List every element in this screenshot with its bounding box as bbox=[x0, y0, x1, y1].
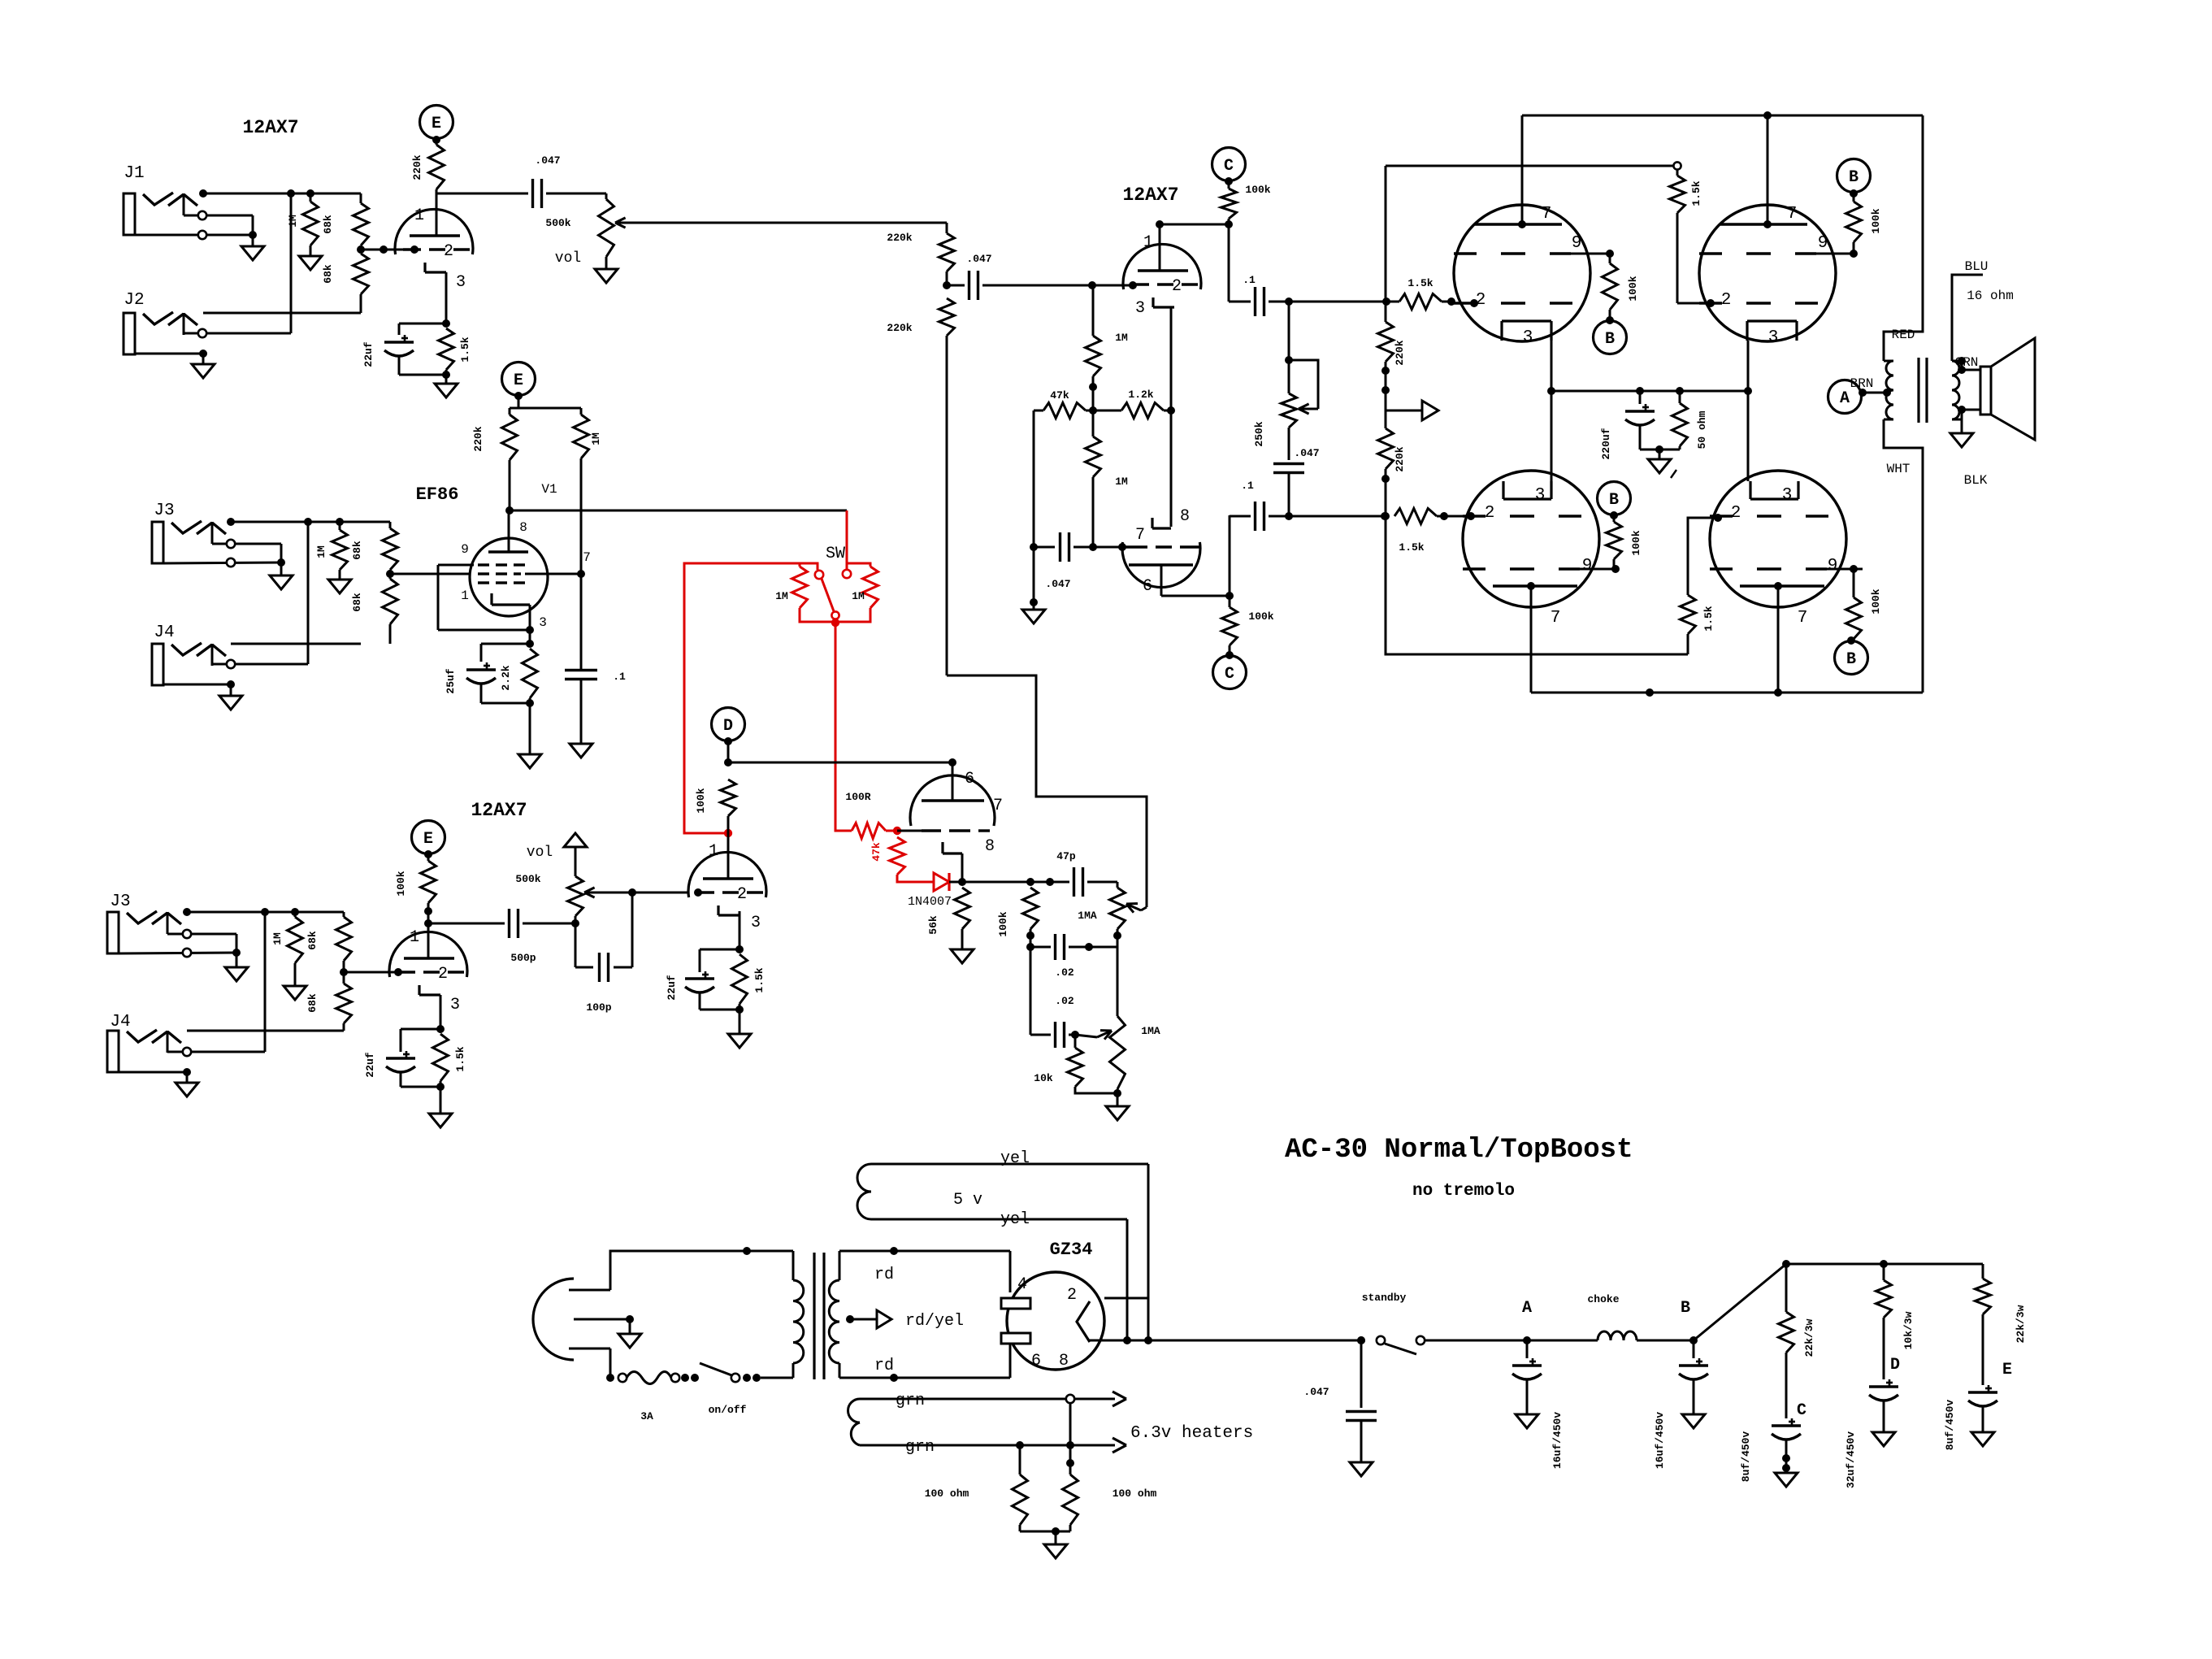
resistor 100k (tube1 screen) bbox=[1603, 250, 1618, 324]
terminal E (ch3) bbox=[412, 821, 445, 859]
terminal B (tube1) bbox=[1594, 321, 1627, 354]
ground (1M ch1) bbox=[299, 256, 322, 270]
svg-text:22uf: 22uf bbox=[364, 1052, 376, 1077]
pin 2 tube4 bbox=[1731, 504, 1741, 523]
svg-text:A: A bbox=[1522, 1299, 1532, 1318]
label grn bottom bbox=[905, 1438, 935, 1457]
label 220k ch1 bbox=[411, 154, 423, 180]
pin 9 tube4 bbox=[1828, 557, 1838, 575]
svg-text:68k: 68k bbox=[306, 931, 319, 950]
label 220uf bbox=[1600, 428, 1612, 459]
label 47k red bbox=[870, 842, 883, 862]
pin 8 V2b bbox=[1180, 507, 1190, 526]
svg-text:BLK: BLK bbox=[1964, 473, 1988, 488]
terminal B (tube4) bbox=[1835, 641, 1868, 675]
resistor 100k (tube3 screen) bbox=[1607, 515, 1622, 573]
ground (47k bypass) bbox=[1022, 610, 1045, 623]
label 1.5k tube3 bbox=[1399, 541, 1424, 554]
svg-text:J3: J3 bbox=[154, 502, 174, 520]
svg-text:16 ohm: 16 ohm bbox=[1967, 289, 2014, 303]
label .047 PI bbox=[966, 253, 991, 265]
subtitle no tremolo bbox=[1412, 1182, 1515, 1201]
label 100k t3 bbox=[1630, 530, 1642, 555]
pin 3 tube4 bbox=[1782, 486, 1793, 505]
label .047 B+ bbox=[1303, 1386, 1329, 1398]
pin 3 V3b bbox=[751, 914, 761, 932]
ground (16uf B) bbox=[1682, 1414, 1705, 1428]
pin 1 V2a bbox=[1143, 233, 1153, 252]
label .02 upper bbox=[1055, 966, 1074, 979]
resistor 1M (ch3) bbox=[288, 912, 303, 986]
label yel top bbox=[1000, 1149, 1030, 1168]
svg-text:16uf/450v: 16uf/450v bbox=[1551, 1412, 1564, 1469]
svg-text:BLU: BLU bbox=[1965, 259, 1989, 274]
wire plate node to cap bbox=[436, 193, 528, 195]
ground (J4b) bbox=[176, 1083, 198, 1097]
pin 2 GZ34 bbox=[1067, 1286, 1077, 1305]
label GZ34 bbox=[1050, 1240, 1093, 1260]
svg-text:1M: 1M bbox=[1115, 476, 1128, 488]
resistor 10k bbox=[1068, 1035, 1118, 1093]
svg-text:47p: 47p bbox=[1056, 850, 1076, 862]
svg-text:1M: 1M bbox=[287, 215, 299, 228]
svg-text:1M: 1M bbox=[315, 545, 327, 558]
pin 2 tube1 bbox=[1476, 291, 1486, 310]
label 100p bbox=[586, 1001, 611, 1014]
resistor 220k (bias upper) bbox=[1378, 302, 1394, 410]
resistor 68k (ch2 b) bbox=[383, 570, 398, 644]
label 22k/3w E bbox=[2015, 1305, 2027, 1343]
terminal E (ch1) bbox=[420, 106, 453, 145]
label 220k bias lower bbox=[1394, 446, 1406, 471]
svg-text:100k: 100k bbox=[1248, 610, 1273, 623]
svg-text:C: C bbox=[1225, 665, 1234, 684]
wire bass gnd bbox=[1117, 1093, 1119, 1106]
AC plug prong gnd bbox=[574, 1315, 634, 1334]
svg-text:9: 9 bbox=[1818, 234, 1828, 253]
wire V3c cathode to diode node bbox=[958, 853, 966, 886]
resistor 68k (ch1 b) bbox=[353, 245, 369, 313]
svg-text:100 ohm: 100 ohm bbox=[1113, 1487, 1157, 1500]
svg-text:10k/3w: 10k/3w bbox=[1902, 1311, 1915, 1349]
wire D node right bbox=[728, 758, 956, 767]
tube EL84 #1 bbox=[1454, 205, 1610, 341]
tube V1a 12AX7 bbox=[395, 209, 473, 272]
wire BLU 16ohm tap bbox=[1952, 275, 1983, 365]
speaker bbox=[1980, 338, 2035, 440]
wire J1 tip bbox=[199, 189, 361, 198]
svg-text:8: 8 bbox=[519, 520, 527, 535]
fuse 3A bbox=[618, 1372, 699, 1384]
svg-text:16uf/450v: 16uf/450v bbox=[1654, 1412, 1666, 1469]
label 2.2k bbox=[500, 665, 512, 690]
svg-text:1M: 1M bbox=[775, 590, 788, 602]
ground (1M ch3) bbox=[284, 986, 306, 1000]
svg-text:3A: 3A bbox=[640, 1410, 653, 1422]
ground (J1 sleeve) bbox=[241, 246, 264, 260]
label WHT bbox=[1887, 462, 1911, 476]
pin 1 label EF86 bbox=[461, 588, 469, 603]
label .047 cut bbox=[1294, 447, 1319, 459]
pin 8 label EF86 bbox=[519, 520, 527, 535]
wire V2b plate bbox=[1161, 565, 1234, 600]
ground (vol ch1) bbox=[595, 269, 618, 283]
label 1.5k V3b bbox=[753, 967, 766, 992]
svg-text:1.5k: 1.5k bbox=[1399, 541, 1424, 554]
pin 2 tube2 bbox=[1721, 291, 1732, 310]
switch SW lever bbox=[815, 571, 839, 627]
label 68k ch3a bbox=[306, 931, 319, 950]
pin 8 V3c bbox=[985, 837, 995, 856]
svg-text:68k: 68k bbox=[322, 215, 334, 234]
terminal E (ch2) bbox=[502, 363, 536, 401]
svg-text:rd: rd bbox=[874, 1266, 894, 1284]
svg-text:B: B bbox=[1609, 491, 1619, 510]
wire BLK tap bbox=[1958, 406, 1980, 433]
resistor 1M (ch1 grid leak) bbox=[303, 193, 319, 256]
svg-text:.047: .047 bbox=[535, 154, 560, 167]
wire to ground ch1 cathode bbox=[445, 375, 448, 384]
wire yel left bbox=[1123, 1219, 1131, 1344]
svg-text:7: 7 bbox=[993, 797, 1003, 815]
svg-text:2.2k: 2.2k bbox=[500, 665, 512, 690]
wire red switch common down bbox=[835, 623, 852, 831]
node ch3 grid junction bbox=[340, 968, 402, 976]
svg-text:32uf/450v: 32uf/450v bbox=[1845, 1431, 1857, 1488]
resistor 1.5k (tube3 grid) bbox=[1394, 509, 1475, 524]
jack J2 label bbox=[124, 291, 144, 310]
svg-text:6.3v heaters: 6.3v heaters bbox=[1130, 1424, 1253, 1443]
svg-text:8: 8 bbox=[1180, 507, 1190, 526]
terminal C (bottom) bbox=[1213, 656, 1247, 689]
svg-text:1.2k: 1.2k bbox=[1128, 389, 1153, 401]
svg-text:.02: .02 bbox=[1055, 995, 1074, 1007]
svg-text:.1: .1 bbox=[613, 671, 626, 683]
label 16 ohm bbox=[1967, 289, 2014, 303]
pot 1MA treble bbox=[1110, 882, 1147, 940]
PT 6.3v winding bbox=[848, 1392, 1127, 1453]
node B bbox=[1689, 1336, 1698, 1344]
pin 7 V2b bbox=[1135, 526, 1145, 545]
wire J4 ring to J3 tip bbox=[307, 522, 310, 664]
label 100k V3a bbox=[395, 871, 407, 896]
pin 8 GZ34 bbox=[1059, 1352, 1069, 1370]
label 56k bbox=[927, 915, 939, 935]
svg-text:68k: 68k bbox=[322, 264, 334, 284]
capacitor .047 (47k bypass) bbox=[1030, 410, 1069, 610]
svg-text:50 ohm: 50 ohm bbox=[1696, 410, 1708, 449]
pin 9 tube2 bbox=[1818, 234, 1828, 253]
switch standby bbox=[1377, 1336, 1425, 1354]
resistor 100k (V2a plate) bbox=[1221, 180, 1237, 228]
pin 3 tube2 bbox=[1768, 328, 1779, 347]
label D node bbox=[1890, 1356, 1900, 1375]
svg-text:9: 9 bbox=[1572, 234, 1582, 253]
capacitor .047 (PI input) bbox=[947, 271, 1137, 300]
label 500k ch3 bbox=[515, 873, 540, 885]
svg-text:WHT: WHT bbox=[1887, 462, 1911, 476]
svg-text:5 v: 5 v bbox=[953, 1191, 982, 1210]
svg-text:10k: 10k bbox=[1034, 1072, 1053, 1084]
svg-text:500k: 500k bbox=[545, 217, 570, 229]
pin 7 label EF86 bbox=[583, 550, 591, 565]
pin 7 tube1 bbox=[1542, 205, 1552, 224]
resistor 56k bbox=[955, 888, 970, 949]
pin 2 V3a bbox=[438, 965, 448, 984]
terminal A bbox=[1828, 380, 1892, 414]
resistor 220k (bias lower) bbox=[1378, 410, 1394, 520]
svg-text:220k: 220k bbox=[472, 426, 484, 451]
wire OT red primary bbox=[1884, 115, 1923, 361]
AC plug prong neutral bbox=[569, 1348, 614, 1382]
capacitor .047 (ch1 coupling) bbox=[533, 179, 607, 208]
resistor 50 ohm (cathode) bbox=[1672, 391, 1688, 449]
resistor 47k bbox=[1034, 403, 1093, 419]
svg-text:1.5k: 1.5k bbox=[459, 337, 471, 362]
svg-text:12AX7: 12AX7 bbox=[242, 117, 298, 138]
svg-text:12AX7: 12AX7 bbox=[1122, 185, 1178, 206]
svg-text:3: 3 bbox=[456, 273, 466, 292]
tube V2a 12AX7 bbox=[1123, 244, 1201, 307]
capacitor .047 (B+) bbox=[1346, 1340, 1377, 1462]
svg-text:E: E bbox=[2002, 1361, 2012, 1379]
svg-text:1MA: 1MA bbox=[1078, 910, 1097, 922]
pin 3 label bbox=[456, 273, 466, 292]
svg-text:3: 3 bbox=[539, 615, 547, 630]
pin 6 GZ34 bbox=[1031, 1352, 1041, 1370]
resistor 68k (ch2 a) bbox=[383, 522, 398, 570]
label choke bbox=[1587, 1293, 1619, 1305]
svg-text:rd/yel: rd/yel bbox=[905, 1312, 964, 1331]
node ch2 grid junction bbox=[386, 570, 470, 578]
capacitor 22uf (ch3) bbox=[386, 1029, 440, 1087]
capacitor .1 (upper out) bbox=[1229, 224, 1390, 316]
wire ch3 cathode gnd bbox=[440, 1087, 442, 1114]
label 500k ch1 bbox=[545, 217, 570, 229]
wire EF86 cathode gnd bbox=[529, 703, 531, 754]
svg-text:2: 2 bbox=[1067, 1286, 1077, 1305]
svg-text:2: 2 bbox=[1721, 291, 1732, 310]
svg-text:68k: 68k bbox=[351, 593, 363, 612]
terminal B (tube3) bbox=[1598, 482, 1631, 520]
tube EL84 #3 bbox=[1463, 471, 1616, 607]
svg-text:.047: .047 bbox=[966, 253, 991, 265]
label 220k PI top bbox=[887, 232, 912, 244]
pin 2 tube3 bbox=[1485, 504, 1495, 523]
svg-text:choke: choke bbox=[1587, 1293, 1619, 1305]
terminal D bbox=[712, 708, 745, 767]
label B node bbox=[1681, 1299, 1690, 1318]
label grn top bbox=[896, 1392, 925, 1410]
svg-text:1M: 1M bbox=[271, 932, 284, 945]
feedback arrow bbox=[1386, 401, 1438, 420]
pin 7 tube4 bbox=[1798, 609, 1808, 628]
wire B to C diagonal bbox=[1694, 1260, 1790, 1340]
svg-text:GZ34: GZ34 bbox=[1050, 1240, 1093, 1260]
inductor choke bbox=[1598, 1331, 1694, 1340]
resistor 1M (PI b) bbox=[1086, 410, 1101, 551]
resistor 1.5k (V3b cathode) bbox=[732, 954, 748, 1014]
label C node bbox=[1797, 1401, 1806, 1420]
wire J4b ring to J3b tip bbox=[264, 912, 267, 1052]
ground (J2 sleeve) bbox=[192, 364, 215, 378]
resistor 220k (ch1 plate) bbox=[429, 138, 445, 193]
svg-text:220k: 220k bbox=[1394, 340, 1406, 365]
ground (vol ch3 top) bbox=[564, 833, 587, 847]
label 1N4007 bbox=[908, 895, 952, 909]
label 5 v bbox=[953, 1191, 982, 1210]
svg-text:22k/3w: 22k/3w bbox=[2015, 1305, 2027, 1343]
tube EL84 #4 bbox=[1710, 471, 1863, 607]
svg-text:2: 2 bbox=[1476, 291, 1486, 310]
capacitor 8uf (C) bbox=[1772, 1418, 1801, 1473]
svg-text:.1: .1 bbox=[1243, 274, 1256, 286]
wire J4 tip bbox=[231, 643, 361, 645]
pin 3 tube1 bbox=[1523, 328, 1533, 347]
resistor 100 ohm (left) bbox=[1013, 1445, 1028, 1531]
capacitor 22uf (V3b) bbox=[685, 949, 740, 1010]
wire wiper to V3b grid bbox=[632, 888, 702, 897]
label 3A bbox=[640, 1410, 653, 1422]
label BLU bbox=[1965, 259, 1989, 274]
pin 3 V2a bbox=[1135, 299, 1145, 318]
label BRN bbox=[1850, 376, 1874, 391]
svg-text:7: 7 bbox=[1551, 609, 1561, 628]
wire grid bias chain top bbox=[1385, 166, 1387, 302]
svg-text:3: 3 bbox=[1768, 328, 1779, 347]
label 220k PI bottom bbox=[887, 322, 912, 334]
label 50 ohm bbox=[1696, 410, 1708, 449]
svg-text:3: 3 bbox=[1535, 486, 1546, 505]
capacitor 220uf (cathode) bbox=[1625, 391, 1680, 454]
svg-text:3: 3 bbox=[1135, 299, 1145, 318]
label 1.5k tube2 bbox=[1690, 180, 1702, 206]
label 22k/3w C bbox=[1803, 1318, 1815, 1357]
resistor 1.2k bbox=[1093, 403, 1171, 419]
wire bias bottom branch bbox=[1386, 516, 1688, 654]
wire red long branch bbox=[684, 563, 800, 837]
tube EL84 #2 bbox=[1699, 205, 1855, 341]
jack J4 bbox=[152, 643, 308, 696]
svg-text:8uf/450v: 8uf/450v bbox=[1740, 1431, 1752, 1483]
resistor 22k/3w (C) bbox=[1779, 1264, 1794, 1418]
pin 3 label EF86 bbox=[539, 615, 547, 630]
svg-text:J3: J3 bbox=[110, 892, 130, 911]
svg-text:6: 6 bbox=[965, 770, 974, 788]
svg-text:100k: 100k bbox=[1870, 588, 1882, 614]
tube V3c (cathode follower) bbox=[910, 762, 995, 853]
pin 9 tube3 bbox=[1582, 557, 1593, 575]
resistor 1.5k (tube1 grid) bbox=[1386, 294, 1478, 310]
node EF86 plate bbox=[505, 506, 514, 515]
capacitor 47p bbox=[1074, 867, 1118, 897]
svg-text:.047: .047 bbox=[1294, 447, 1319, 459]
label RED bbox=[1892, 328, 1915, 342]
svg-text:1: 1 bbox=[1143, 233, 1153, 252]
pin 6 V2b bbox=[1143, 577, 1152, 596]
label 32uf D bbox=[1845, 1431, 1857, 1488]
ground (16uf A) bbox=[1516, 1414, 1538, 1428]
transformer primary bbox=[1884, 361, 1893, 419]
svg-text:100k: 100k bbox=[1630, 530, 1642, 555]
svg-text:250k: 250k bbox=[1253, 421, 1265, 446]
svg-text:47k: 47k bbox=[870, 842, 883, 862]
ground (ch1 cathode) bbox=[435, 384, 458, 397]
wire V1a cathode bbox=[442, 272, 450, 328]
resistor 100 ohm (right) bbox=[1063, 1403, 1078, 1531]
label 10k/3w bbox=[1902, 1311, 1915, 1349]
label 100k t1 bbox=[1627, 276, 1639, 301]
tube V3b 12AX7 bbox=[688, 852, 766, 915]
svg-text:22uf: 22uf bbox=[666, 975, 678, 1000]
ground (ch3 cathode) bbox=[429, 1114, 452, 1127]
svg-text:D: D bbox=[723, 717, 733, 736]
ground (heater CT) bbox=[1044, 1544, 1067, 1558]
svg-text:500k: 500k bbox=[515, 873, 540, 885]
wire bias top branch bbox=[1386, 162, 1681, 169]
svg-text:47k: 47k bbox=[1050, 389, 1069, 402]
svg-text:J2: J2 bbox=[124, 291, 144, 310]
svg-text:12AX7: 12AX7 bbox=[471, 800, 527, 821]
label 47p bbox=[1056, 850, 1076, 862]
label 1M ch2 bbox=[315, 545, 327, 558]
resistor 2.2k (EF86 cathode) bbox=[523, 649, 538, 707]
resistor 1M (SW left) bbox=[792, 563, 836, 622]
svg-text:E: E bbox=[423, 830, 433, 849]
pin 9 tube1 bbox=[1572, 234, 1582, 253]
wire bottom rail bbox=[1531, 586, 1923, 697]
label 100k t2 bbox=[1870, 208, 1882, 233]
resistor 220k (PI bottom) bbox=[939, 298, 955, 675]
PT primary coil bbox=[793, 1251, 804, 1378]
ground (J3b) bbox=[225, 967, 248, 981]
svg-text:A: A bbox=[1840, 389, 1850, 408]
svg-text:8uf/450v: 8uf/450v bbox=[1944, 1400, 1956, 1451]
svg-text:1N4007: 1N4007 bbox=[908, 895, 952, 909]
resistor 220k (PI top) bbox=[939, 223, 955, 289]
svg-text:6: 6 bbox=[1031, 1352, 1041, 1370]
wire treble feed bbox=[947, 675, 1147, 907]
label standby bbox=[1362, 1292, 1407, 1304]
PT 5v winding bbox=[857, 1164, 1148, 1219]
resistor 100k (V2b plate) bbox=[1222, 515, 1238, 659]
PT center tap bbox=[846, 1310, 891, 1328]
wire J2 tip bbox=[203, 312, 361, 315]
capacitor 500p bbox=[428, 909, 575, 938]
svg-text:on/off: on/off bbox=[709, 1404, 747, 1416]
resistor 1M (SW right) bbox=[835, 563, 878, 622]
pin 1 V3a bbox=[410, 928, 419, 947]
svg-text:2: 2 bbox=[1731, 504, 1741, 523]
wire J3 tip bbox=[227, 518, 390, 526]
resistor 100R (red) bbox=[852, 823, 901, 839]
pot 250k (cut) bbox=[1282, 302, 1319, 460]
resistor 22k/3w (E) bbox=[1976, 1264, 1991, 1385]
pin 3 tube3 bbox=[1535, 486, 1546, 505]
jack J1 bbox=[124, 193, 257, 246]
resistor 68k (ch1 a) bbox=[353, 193, 369, 245]
label 1M EF86 bbox=[590, 432, 602, 445]
svg-text:22k/3w: 22k/3w bbox=[1803, 1318, 1815, 1357]
label 1M bbox=[287, 215, 299, 228]
label .1 upper bbox=[1243, 274, 1256, 286]
label .02 lower bbox=[1055, 995, 1074, 1007]
svg-text:rd: rd bbox=[874, 1357, 894, 1375]
svg-text:8: 8 bbox=[985, 837, 995, 856]
label 220k ch2 bbox=[472, 426, 484, 451]
label 22uf ch1 bbox=[362, 341, 375, 367]
svg-text:100k: 100k bbox=[1627, 276, 1639, 301]
